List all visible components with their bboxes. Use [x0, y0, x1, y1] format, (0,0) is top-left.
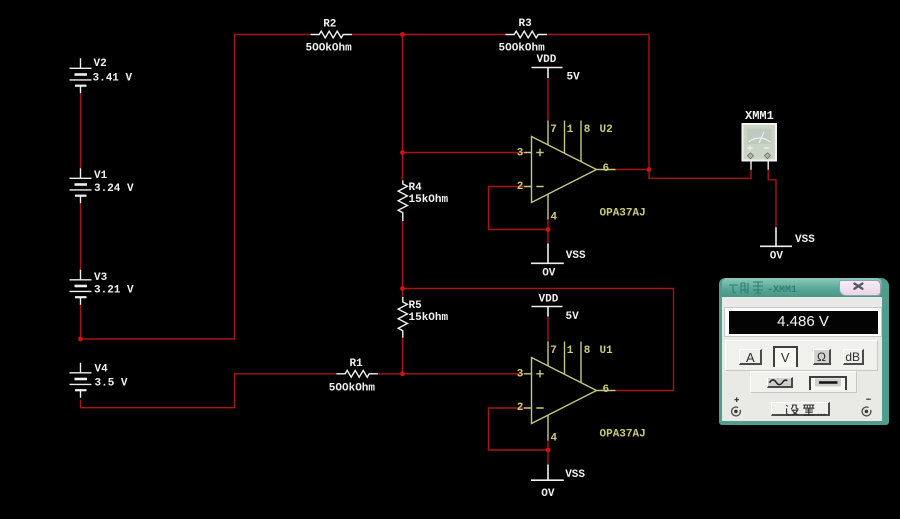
svg-text:VSS: VSS [795, 234, 815, 246]
svg-text:6: 6 [603, 163, 610, 175]
svg-text:7: 7 [550, 124, 557, 136]
svg-text:R4: R4 [409, 182, 423, 194]
svg-text:R1: R1 [350, 358, 364, 370]
svg-text:V1: V1 [94, 170, 108, 182]
svg-text:5OOkOhm: 5OOkOhm [306, 43, 353, 55]
svg-text:3.24 V: 3.24 V [94, 183, 134, 195]
svg-text:V4: V4 [95, 364, 109, 376]
svg-text:OV: OV [541, 488, 555, 500]
svg-text:3.21 V: 3.21 V [94, 285, 134, 297]
svg-text:V2: V2 [94, 58, 107, 70]
svg-text:1: 1 [567, 345, 574, 357]
svg-text:5V: 5V [566, 311, 580, 323]
svg-text:3.5 V: 3.5 V [95, 377, 128, 389]
svg-text:7: 7 [550, 345, 557, 357]
svg-text:1: 1 [567, 124, 574, 136]
svg-text:5OOkOhm: 5OOkOhm [329, 383, 376, 395]
svg-text:OPA37AJ: OPA37AJ [600, 429, 646, 441]
svg-text:3: 3 [517, 147, 524, 159]
svg-text:OV: OV [770, 251, 784, 263]
svg-text:5V: 5V [567, 71, 581, 83]
svg-text:R5: R5 [409, 300, 423, 312]
svg-text:VDD: VDD [539, 293, 559, 305]
svg-text:4: 4 [551, 433, 558, 445]
svg-text:8: 8 [584, 124, 591, 136]
svg-text:3.41 V: 3.41 V [93, 72, 133, 84]
svg-text:8: 8 [584, 345, 591, 357]
svg-text:XMM1: XMM1 [745, 109, 774, 123]
svg-text:VSS: VSS [566, 250, 586, 262]
svg-text:U1: U1 [600, 345, 614, 357]
svg-text:VSS: VSS [565, 469, 585, 481]
svg-text:2: 2 [517, 181, 524, 193]
svg-text:VDD: VDD [537, 54, 557, 66]
svg-text:6: 6 [603, 384, 610, 396]
svg-text:R3: R3 [519, 18, 533, 30]
svg-text:OPA37AJ: OPA37AJ [600, 208, 646, 220]
svg-text:15kOhm: 15kOhm [409, 312, 449, 324]
svg-text:OV: OV [542, 268, 556, 280]
svg-text:U2: U2 [600, 124, 613, 136]
svg-text:R2: R2 [323, 18, 336, 30]
svg-text:4: 4 [551, 211, 558, 223]
svg-text:3: 3 [517, 368, 524, 380]
svg-text:5OOkOhm: 5OOkOhm [499, 43, 546, 55]
svg-text:V3: V3 [94, 272, 108, 284]
svg-text:2: 2 [517, 402, 524, 414]
svg-text:15kOhm: 15kOhm [409, 194, 449, 206]
